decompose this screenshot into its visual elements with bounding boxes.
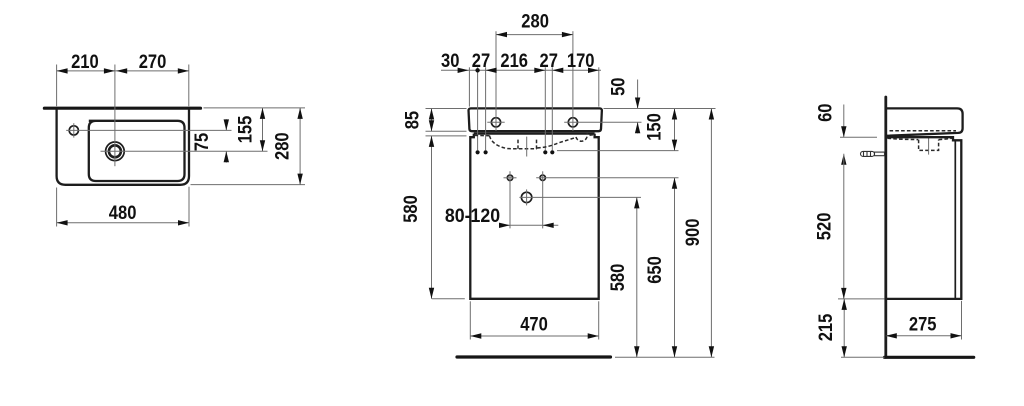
svg-text:580: 580 [608, 264, 629, 292]
svg-text:470: 470 [520, 315, 548, 336]
svg-text:60: 60 [815, 104, 836, 122]
svg-text:80-120: 80-120 [445, 206, 500, 227]
svg-text:280: 280 [521, 11, 549, 32]
svg-text:280: 280 [272, 132, 293, 160]
svg-text:27: 27 [540, 51, 558, 72]
svg-text:150: 150 [645, 113, 666, 141]
svg-text:216: 216 [500, 51, 528, 72]
svg-text:215: 215 [816, 313, 837, 341]
svg-text:75: 75 [192, 132, 213, 151]
svg-text:480: 480 [109, 203, 137, 224]
svg-text:650: 650 [645, 256, 666, 284]
svg-text:85: 85 [403, 111, 424, 130]
svg-text:170: 170 [567, 51, 595, 72]
svg-text:520: 520 [815, 213, 836, 241]
svg-text:210: 210 [71, 52, 99, 73]
svg-text:275: 275 [909, 314, 937, 335]
svg-text:580: 580 [401, 195, 422, 223]
svg-text:50: 50 [609, 78, 630, 96]
svg-text:270: 270 [139, 52, 167, 73]
svg-text:30: 30 [441, 51, 459, 72]
svg-text:900: 900 [683, 219, 704, 247]
svg-text:155: 155 [236, 115, 257, 143]
svg-text:27: 27 [472, 51, 490, 72]
